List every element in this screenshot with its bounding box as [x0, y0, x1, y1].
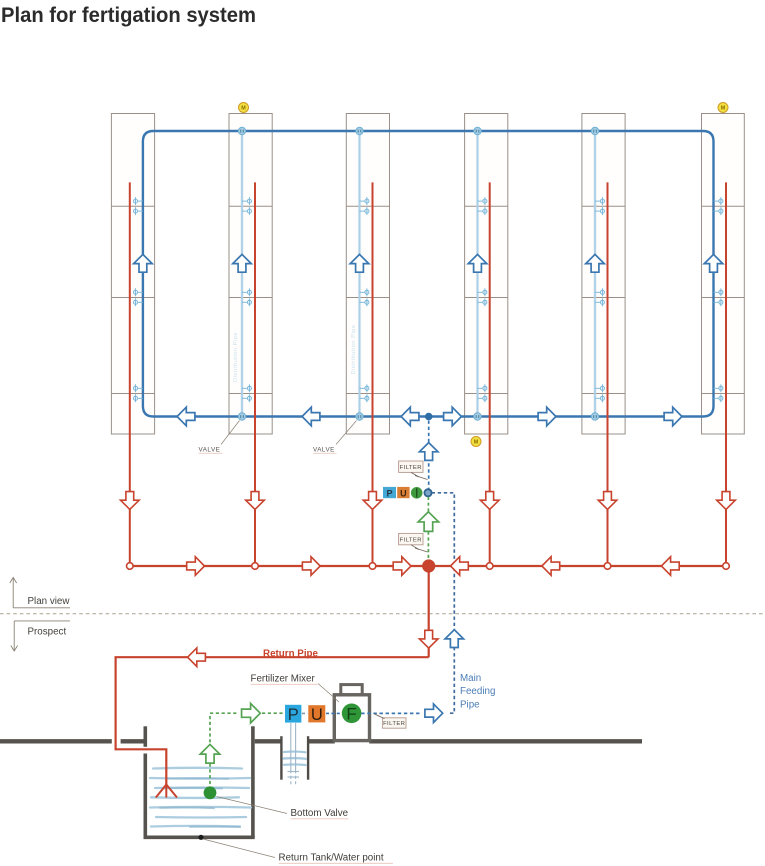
- return pipe down arrow: [419, 630, 438, 648]
- loop arrow right at x673: [664, 407, 682, 426]
- loop arrow right at x452.5: [444, 407, 462, 426]
- ground right: [369, 739, 642, 743]
- grow-bed column 4: [465, 114, 508, 435]
- down arrow riser 5: [598, 492, 617, 510]
- filter leader upper: [411, 472, 428, 479]
- down arrow riser 6: [717, 492, 736, 510]
- valve label 2: [313, 421, 357, 454]
- meter M column 4 bottom: [471, 437, 481, 447]
- pipe node top column 3: [356, 127, 363, 134]
- collector arrow right x402.1: [393, 557, 411, 576]
- tank suction arrow: [200, 744, 220, 763]
- meter M column 2: [239, 103, 249, 113]
- grow-bed column 3: [346, 114, 389, 435]
- pipe node bottom column 3: [356, 413, 363, 420]
- mixer box: [334, 695, 369, 741]
- meter M column 6: [718, 103, 728, 113]
- collector junction ring 3: [369, 563, 376, 570]
- main loop pipe: [143, 131, 714, 417]
- pipe node top column 4: [474, 127, 481, 134]
- svg-text:FILTER: FILTER: [383, 721, 405, 727]
- svg-text:Plan for fertigation system: Plan for fertigation system: [1, 4, 256, 27]
- bed valves column 1: [133, 197, 142, 402]
- bed valves column 3: [360, 197, 369, 402]
- red riser column 3: [372, 182, 374, 566]
- bed valves column 6: [714, 197, 723, 402]
- ground left: [0, 739, 112, 743]
- svg-text:Return Tank/Water point: Return Tank/Water point: [279, 853, 384, 864]
- svg-text:FILTER: FILTER: [400, 465, 422, 471]
- mini pump P: [383, 487, 396, 498]
- down arrow riser 1: [121, 492, 140, 510]
- ground tank-basin: [255, 739, 281, 743]
- svg-text:Distribution Pipe: Distribution Pipe: [351, 324, 357, 374]
- suction dashed run: [210, 712, 239, 714]
- collector arrow left x550.8: [542, 557, 560, 576]
- distribution pipe column 5: [593, 131, 596, 417]
- distribution pipe column 2: [240, 131, 243, 417]
- mix point node: [424, 489, 431, 496]
- svg-text:U: U: [311, 706, 323, 724]
- mixer F valve: [342, 704, 362, 724]
- bottom valve label: [217, 797, 349, 820]
- pipe node bottom column 2: [238, 413, 245, 420]
- filter leader lower: [411, 545, 428, 552]
- collector junction ring 5: [604, 563, 611, 570]
- collector junction ring 1: [127, 563, 134, 570]
- filter label lower: [399, 533, 423, 544]
- up-flow arrow column 5: [586, 254, 605, 272]
- basin walls: [281, 736, 308, 780]
- svg-text:Return Pipe: Return Pipe: [263, 649, 319, 660]
- svg-text:M: M: [721, 106, 726, 112]
- red collector pipe: [130, 565, 727, 567]
- bed valves column 5: [595, 197, 604, 402]
- svg-text:M: M: [474, 440, 479, 446]
- mini unit U: [397, 487, 409, 498]
- up-flow arrow column 2: [233, 254, 252, 272]
- svg-text:Prospect: Prospect: [28, 627, 67, 638]
- return pipe left arrow: [188, 648, 206, 667]
- red riser column 2: [254, 182, 256, 566]
- bottom valve: [204, 786, 217, 799]
- loop arrow left at x410: [401, 407, 419, 426]
- loop arrow left at x186: [177, 407, 195, 426]
- tank bottom point: [198, 835, 203, 840]
- plan view marker: [10, 578, 70, 608]
- pipe node top column 2: [238, 127, 245, 134]
- filter label upper: [399, 461, 423, 472]
- pipe node top column 5: [591, 127, 598, 134]
- grow-bed column 2: [229, 114, 272, 435]
- svg-text:M: M: [241, 106, 246, 112]
- filter leader mixer: [374, 714, 385, 719]
- up-flow arrow column 6: [704, 254, 723, 272]
- svg-text:Bottom Valve: Bottom Valve: [291, 808, 349, 819]
- feed arrow up below loop: [419, 443, 438, 461]
- collector junction ring 6: [723, 563, 730, 570]
- pump P: [285, 705, 301, 724]
- up-flow arrow column 3: [350, 254, 369, 272]
- svg-text:FILTER: FILTER: [400, 538, 422, 544]
- svg-text:P: P: [288, 706, 299, 724]
- distribution pipe column 4: [476, 131, 479, 417]
- svg-text:P: P: [386, 488, 392, 498]
- fert arrow up: [418, 512, 438, 532]
- svg-text:U: U: [400, 488, 407, 498]
- return pipe down from node: [428, 566, 430, 657]
- ground basin-mixer: [309, 739, 335, 743]
- main feeding riser dashed: [432, 493, 455, 713]
- grow-bed column 1: [111, 114, 154, 435]
- suction pipe: [288, 723, 300, 784]
- mixer lid: [341, 685, 362, 695]
- uf dash: [326, 712, 341, 714]
- collector junction ring 4: [486, 563, 493, 570]
- pipe node bottom column 4: [474, 413, 481, 420]
- bed valves column 2: [242, 197, 251, 402]
- collector central node: [422, 559, 435, 572]
- tank walls: [144, 726, 255, 837]
- feeding right arrow: [425, 704, 443, 723]
- ground left2: [121, 739, 144, 743]
- loop arrow right at x547: [538, 407, 556, 426]
- fertilizer mixer label: [251, 674, 340, 703]
- up-flow arrow column 1: [134, 254, 153, 272]
- unit U: [308, 705, 325, 724]
- loop junction node: [425, 413, 433, 421]
- return tank label: [203, 839, 393, 864]
- svg-text:Fertilizer Mixer: Fertilizer Mixer: [251, 674, 316, 685]
- red riser column 6: [725, 182, 727, 566]
- collector arrow right x195.6: [187, 557, 205, 576]
- pipe node bottom column 5: [591, 413, 598, 420]
- grow-bed column 6: [702, 114, 745, 435]
- svg-text:VALVE: VALVE: [199, 447, 221, 454]
- pu dash: [302, 712, 308, 714]
- tank water: [150, 768, 251, 827]
- svg-text:Plan view: Plan view: [28, 596, 71, 607]
- feeding dashed run: [361, 712, 420, 714]
- down arrow riser 3: [363, 492, 382, 510]
- collector junction ring 2: [252, 563, 259, 570]
- valve label 1: [199, 421, 240, 454]
- red riser column 4: [489, 182, 491, 566]
- suction right arrow: [242, 703, 261, 723]
- down arrow riser 4: [480, 492, 499, 510]
- plan/prospect divider: [0, 613, 765, 615]
- svg-text:F: F: [346, 704, 356, 723]
- red riser column 1: [129, 182, 131, 566]
- bed valves column 4: [478, 197, 487, 402]
- return pipe run: [116, 657, 429, 784]
- feed dashed loop-to-mixpoint: [428, 421, 430, 489]
- collector arrow right x311.3: [302, 557, 320, 576]
- filter label mixer: [382, 718, 406, 728]
- red riser column 5: [607, 182, 609, 566]
- fert dashed line: [427, 497, 429, 559]
- distribution pipe column 3: [358, 131, 361, 417]
- svg-text:VALVE: VALVE: [313, 447, 335, 454]
- svg-text:Distribution Pipe: Distribution Pipe: [233, 332, 239, 382]
- loop arrow left at x311: [302, 407, 320, 426]
- collector arrow left x670.3: [661, 557, 679, 576]
- tank suction dashed: [209, 716, 211, 744]
- prospect marker: [11, 621, 70, 651]
- basin water: [284, 752, 307, 765]
- collector arrow left x459.4: [451, 557, 469, 576]
- up-flow arrow column 4: [468, 254, 487, 272]
- main feeding up arrow: [445, 630, 464, 648]
- return strainer: [156, 785, 177, 798]
- mini fert valve: [411, 487, 423, 499]
- down arrow riser 2: [246, 492, 265, 510]
- grow-bed column 5: [582, 114, 625, 435]
